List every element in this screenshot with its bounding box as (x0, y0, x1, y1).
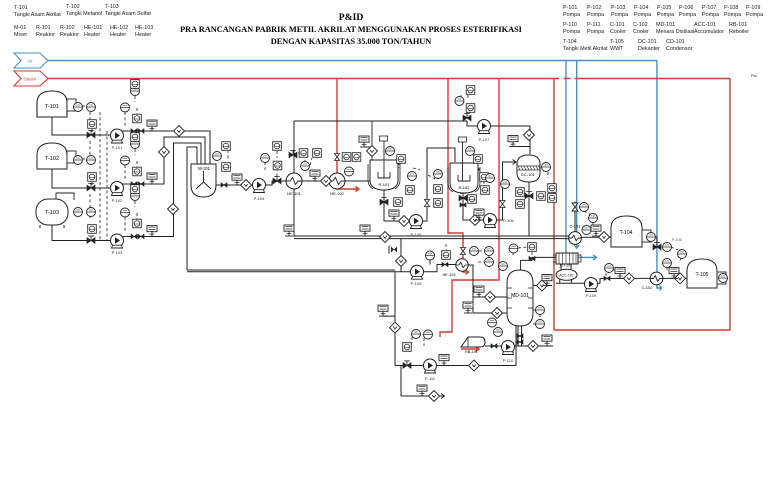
inst row2 (74, 156, 83, 165)
svg-text:Reaktor: Reaktor (60, 32, 79, 38)
svg-text:R-102: R-102 (459, 185, 471, 190)
pump P-103 (111, 234, 124, 248)
svg-text:Pompa: Pompa (563, 12, 580, 18)
svg-text:RB-101: RB-101 (465, 350, 478, 354)
svg-text:Tangki Asam Akrilat: Tangki Asam Akrilat (14, 12, 61, 18)
diamond P105 (399, 216, 410, 227)
svg-text:C-102: C-102 (642, 285, 654, 290)
monitor MD feed2 (463, 302, 473, 313)
tank T-104 (611, 216, 651, 247)
signal R-101 right (399, 162, 435, 179)
diamond MD feed1 (485, 292, 496, 303)
wire row1 to bundle (111, 131, 211, 164)
valve P111 area (403, 361, 411, 368)
monitor row2 (147, 173, 157, 184)
valve steam R101 (334, 154, 339, 161)
pump P-105 (410, 215, 423, 229)
svg-text:Tangki Asam Sulfat: Tangki Asam Sulfat (105, 11, 151, 17)
inst T104 (580, 203, 589, 212)
pump P-110 (502, 341, 515, 355)
svg-text:P-108: P-108 (724, 5, 738, 11)
inst MD top (509, 244, 518, 253)
svg-text:P-106: P-106 (679, 5, 693, 11)
monitor row1 (147, 120, 157, 131)
svg-text:P-103: P-103 (611, 5, 625, 11)
wire RB run (485, 345, 553, 347)
svg-text:Pompa: Pompa (657, 12, 674, 18)
wire T-104 inlet riser (574, 202, 576, 232)
valve MD bottom 1 (517, 334, 523, 338)
monitor T105 (669, 267, 679, 278)
diamond bypass (396, 256, 407, 267)
svg-text:P-105: P-105 (411, 232, 422, 237)
svg-text:Dekanter: Dekanter (638, 46, 660, 52)
decanter DC-101 (517, 155, 540, 182)
accumulator ACC-101 (556, 269, 577, 280)
air drop to C-101 (574, 61, 579, 249)
svg-text:Menara Distilasi: Menara Distilasi (656, 29, 694, 35)
diamond row1 (174, 126, 185, 137)
pump P-108 (411, 265, 424, 279)
tank T-101 (37, 91, 76, 117)
svg-text:T-105: T-105 (696, 272, 709, 278)
svg-text:T-104: T-104 (620, 230, 633, 236)
reboiler RB-101 (461, 337, 485, 354)
monitor MD side (542, 275, 552, 286)
svg-text:Heater: Heater (110, 32, 126, 38)
diamond row3 (168, 204, 179, 215)
monitor mixer (232, 174, 242, 185)
wire P-111 drop (401, 394, 445, 399)
svg-text:Pompa: Pompa (563, 29, 580, 35)
diamond T104 (599, 232, 610, 243)
valve T104 riser (572, 203, 578, 211)
wire black rect top (294, 120, 467, 122)
svg-text:Psi: Psi (751, 73, 757, 78)
diamond DC top (524, 130, 535, 141)
monitor DC top (508, 136, 518, 147)
svg-text:P-101: P-101 (563, 5, 577, 11)
svg-text:P-107: P-107 (479, 137, 490, 142)
svg-text:P-101: P-101 (112, 145, 123, 150)
monitor P109 (615, 267, 625, 278)
inst HE103 (442, 251, 451, 260)
diamond T105 a (624, 273, 635, 284)
signal P-107 col (461, 95, 468, 116)
svg-text:P-107: P-107 (702, 5, 716, 11)
svg-text:P-111: P-111 (425, 376, 436, 381)
monitor P110 (542, 335, 552, 346)
svg-text:Reaktor: Reaktor (36, 32, 55, 38)
svg-text:Pompa: Pompa (746, 12, 763, 18)
pump P-107 (478, 120, 491, 134)
signal P-104 (265, 151, 277, 180)
svg-text:T-101: T-101 (45, 104, 59, 110)
svg-text:P-108: P-108 (411, 281, 422, 286)
wire MD bottoms (518, 326, 522, 346)
wire MD feed lower (473, 297, 507, 313)
wire MD side draw (533, 285, 552, 287)
valve MD top (529, 256, 535, 260)
signal MD right (533, 310, 540, 324)
wire MD overhead (521, 257, 556, 271)
steam drop to RB-101 (440, 79, 499, 352)
monitor P106 (474, 209, 484, 220)
svg-text:P-104: P-104 (634, 5, 648, 11)
svg-text:M-01: M-01 (14, 25, 26, 31)
inst row1 (74, 103, 83, 112)
svg-text:RB-101: RB-101 (729, 22, 747, 28)
valve HE101 top (289, 150, 297, 157)
reactor R-102 (448, 137, 480, 193)
inst P104 (261, 154, 270, 163)
wire T-101 outlet (52, 117, 111, 135)
steam drop to HE-102 (337, 79, 359, 192)
cooler C-101 (569, 232, 582, 245)
monitor P111 out (417, 385, 427, 396)
exchanger HE-103 (456, 259, 468, 271)
svg-text:HE-103: HE-103 (135, 25, 153, 31)
mixer M-101 (191, 160, 216, 197)
wire T-103 outlet (52, 225, 111, 241)
diamond MD side (537, 280, 548, 291)
wire product run to T-104 (294, 236, 611, 239)
svg-text:Air: Air (27, 59, 33, 64)
diamond MD feed2 (492, 308, 503, 319)
inst T105 (663, 243, 672, 252)
valve mixer out (221, 183, 227, 187)
inst P111 cluster (403, 343, 412, 352)
svg-text:Pompa: Pompa (587, 29, 604, 35)
right legend (563, 5, 763, 78)
monitor R101 top (365, 121, 372, 160)
svg-text:CD-101: CD-101 (666, 39, 685, 45)
diamond mixer (241, 180, 252, 191)
valve riser (424, 200, 429, 207)
air header (48, 60, 657, 62)
svg-text:Tangki Metil Akrilat: Tangki Metil Akrilat (563, 46, 608, 52)
valve R102 bottom (459, 193, 467, 200)
valve DC riser (500, 201, 505, 208)
valve HE103 in (442, 262, 448, 266)
valve row2 (87, 183, 95, 190)
valve R101 bottom (380, 197, 388, 204)
monitor recycle (378, 305, 388, 316)
signal mixer top (219, 148, 228, 163)
svg-text:P-106: P-106 (672, 238, 682, 242)
svg-text:P-102: P-102 (112, 198, 123, 203)
wire T-102 outlet (52, 169, 111, 188)
air drop to C-102 (657, 61, 662, 291)
pump P-101 (111, 129, 124, 143)
wire CD to ACC (561, 263, 571, 270)
svg-text:P-110: P-110 (503, 358, 514, 363)
svg-text:Tangki Metanol: Tangki Metanol (66, 11, 102, 17)
valve row1 (87, 130, 95, 137)
svg-text:T-102: T-102 (45, 156, 59, 162)
svg-text:M-101: M-101 (198, 166, 211, 171)
wire MD to P-111 line (395, 326, 516, 366)
wire black rect left (293, 121, 295, 237)
signal MD top (513, 247, 532, 257)
svg-text:Cooler: Cooler (633, 29, 649, 35)
exchanger HE-102 (329, 173, 345, 189)
svg-text:Condensor: Condensor (666, 46, 693, 52)
condenser CD-101 (553, 253, 581, 268)
pump P-111 (424, 359, 437, 373)
svg-text:HE-102: HE-102 (330, 191, 344, 196)
wire T-105 stub (717, 277, 719, 279)
valve row1 tee (131, 129, 137, 133)
inst MD right (536, 306, 545, 315)
svg-text:P-106: P-106 (503, 218, 514, 223)
monitor HE (310, 170, 320, 181)
svg-text:HE-103: HE-103 (443, 273, 456, 277)
svg-text:T-103: T-103 (105, 4, 119, 10)
signal bottom cluster (412, 244, 489, 346)
svg-text:DC-101: DC-101 (521, 172, 536, 177)
wire mixer outlet (213, 184, 252, 186)
svg-text:R-101: R-101 (379, 182, 391, 187)
svg-text:Pompa: Pompa (611, 12, 628, 18)
svg-text:Pompa: Pompa (679, 12, 696, 18)
svg-text:Steam: Steam (24, 77, 37, 82)
svg-text:P-109: P-109 (746, 5, 760, 11)
wire P-108 to HE-103 (423, 260, 456, 272)
steam banner (14, 71, 48, 86)
monitor product (284, 225, 294, 236)
inst row3 (74, 208, 83, 217)
svg-text:HE-101: HE-101 (84, 25, 102, 31)
valve RB out (491, 344, 497, 348)
diamond row2 (159, 147, 170, 158)
svg-text:PRA RANCANGAN PABRIK METIL AKR: PRA RANCANGAN PABRIK METIL AKRILAT MENGG… (180, 25, 522, 34)
inst mixer top (213, 152, 222, 161)
valve HE103 steam (460, 248, 465, 255)
inst R101 chain (434, 170, 443, 179)
wire P-107 to DC-101 (491, 126, 530, 154)
svg-text:Accumulator: Accumulator (694, 29, 724, 35)
svg-text:Pompa: Pompa (634, 12, 651, 18)
svg-text:P-110: P-110 (563, 22, 577, 28)
diamond P111 out (429, 391, 440, 402)
wire row2 to bundle (123, 137, 206, 184)
signal DC right (547, 172, 549, 178)
inst steam R101 (342, 153, 351, 162)
wire ACC to P-109 (556, 280, 585, 284)
svg-text:T-101: T-101 (14, 5, 28, 11)
wire row3 to bundle (123, 143, 202, 237)
steam drop to HE-103 (448, 79, 469, 275)
wire P-104 to R-101 (266, 181, 371, 185)
monitor product 2 (360, 225, 370, 236)
monitor R101 (389, 210, 399, 221)
wire P-106 riser to DC (497, 160, 516, 221)
diamond product (380, 232, 391, 243)
diamond P106 (470, 215, 481, 226)
wire DC-101 bottom (528, 182, 530, 236)
svg-text:P-104: P-104 (254, 196, 265, 201)
svg-text:C-101: C-101 (570, 224, 582, 229)
wire R-101 bottom (384, 190, 409, 221)
wire HE-103 to MD (468, 265, 507, 297)
tank T-102 (37, 143, 76, 169)
svg-text:P-102: P-102 (587, 5, 601, 11)
column MD-101 (507, 270, 533, 326)
diamond P111 (469, 360, 480, 371)
svg-text:T-102: T-102 (66, 4, 80, 10)
svg-text:Pompa: Pompa (702, 12, 719, 18)
pump P-104 (253, 179, 266, 193)
svg-text:Pompa: Pompa (587, 12, 604, 18)
tank T-103 (36, 193, 74, 228)
svg-text:T-103: T-103 (45, 210, 59, 216)
steam header (48, 78, 730, 80)
wire P-109 to T-105 (598, 278, 687, 283)
signal HE101 top (298, 153, 312, 165)
svg-text:C-102: C-102 (633, 22, 648, 28)
air drop to CD-101 (565, 61, 567, 255)
cooler C-102 (650, 272, 663, 285)
monitor MD feed1 (474, 286, 484, 297)
valve P107 in (463, 113, 471, 120)
inst R102 (466, 147, 475, 156)
CD outlet arrow (578, 255, 597, 260)
wire P-105 riser to R-102 (423, 148, 455, 221)
signal T-104 area (580, 206, 593, 228)
wire bypass from mixer (187, 147, 395, 270)
diamond recycle (390, 322, 401, 333)
wire T-104 stub line (651, 237, 657, 242)
pump P-102 (111, 182, 124, 196)
svg-text:Heater: Heater (84, 32, 100, 38)
inst P109 (605, 264, 614, 273)
valve T104 stub (653, 242, 661, 249)
exchanger HE-101 (286, 173, 302, 189)
monitor T104 (591, 225, 601, 236)
steam bottom run (554, 79, 730, 331)
svg-text:HE-101: HE-101 (287, 191, 301, 196)
svg-text:ACC-101: ACC-101 (694, 22, 716, 28)
svg-text:Mixer: Mixer (14, 32, 27, 38)
inst HE101 (299, 149, 308, 158)
inst R101 (386, 147, 395, 156)
svg-text:R-101: R-101 (36, 25, 51, 31)
svg-text:CD-101: CD-101 (560, 264, 572, 268)
svg-text:R-102: R-102 (60, 25, 75, 31)
svg-text:P-105: P-105 (657, 5, 671, 11)
svg-text:MD-101: MD-101 (511, 293, 529, 299)
valve T105 line (604, 276, 610, 280)
monitor P111 (439, 355, 449, 366)
svg-text:Cooler: Cooler (610, 29, 626, 35)
signal row col (99, 112, 101, 240)
svg-text:ACC-101: ACC-101 (559, 274, 574, 278)
svg-text:DC-101: DC-101 (638, 39, 657, 45)
svg-text:Reboiler: Reboiler (729, 29, 749, 35)
svg-text:P-103: P-103 (112, 250, 123, 255)
inst DC (542, 163, 551, 172)
pump P-106 (484, 214, 497, 228)
svg-text:Heater: Heater (135, 32, 151, 38)
svg-text:T-105: T-105 (610, 39, 624, 45)
wire R-102 bottom (463, 195, 483, 220)
steam drop right (553, 79, 555, 331)
tank T-105 (687, 259, 726, 288)
svg-text:Pompa: Pompa (724, 12, 741, 18)
signal P-109 area (606, 270, 616, 276)
diamond P110 (528, 341, 539, 352)
valve DC bottom (525, 191, 533, 198)
valve MD bottom 2 (517, 340, 523, 344)
svg-text:P-109: P-109 (586, 293, 597, 298)
inst RB top (488, 318, 497, 327)
signal R-102 right (479, 168, 484, 186)
air banner (14, 53, 48, 68)
diamond HE line (321, 176, 332, 187)
monitor row3 (147, 226, 157, 237)
svg-text:P&ID: P&ID (339, 12, 364, 23)
valve row3 tee (131, 234, 137, 238)
valve row3 (87, 236, 95, 243)
valve speaker (389, 246, 397, 254)
reactor R-101 (368, 136, 400, 190)
wire valve to P-107 (467, 121, 477, 126)
valve row2 tee (131, 182, 137, 186)
diamond T105 b (675, 273, 686, 284)
svg-text:P-111: P-111 (587, 22, 601, 28)
svg-text:HE-102: HE-102 (110, 25, 128, 31)
svg-text:T-104: T-104 (563, 39, 577, 45)
svg-text:DENGAN KAPASITAS 35.000 TON/TA: DENGAN KAPASITAS 35.000 TON/TAHUN (271, 37, 432, 46)
valve P104 out (273, 176, 281, 183)
pump P-109 (585, 278, 598, 292)
inst P107 (466, 86, 475, 95)
svg-text:MD-101: MD-101 (656, 22, 675, 28)
wire MD feed upper (187, 239, 411, 396)
svg-text:WWT: WWT (610, 46, 624, 52)
signal T-105 area (661, 247, 682, 272)
svg-text:C-101: C-101 (610, 22, 625, 28)
